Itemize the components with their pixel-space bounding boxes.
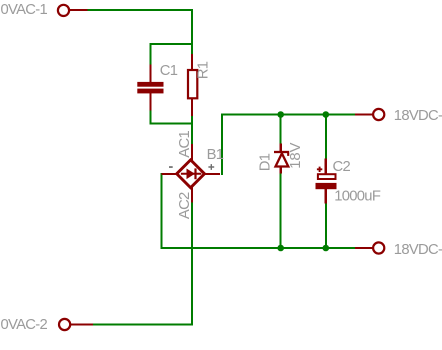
bridge diode anode line: [181, 173, 201, 175]
lead D1 bottom: [280, 167, 282, 174]
wire block top horizontal: [150, 43, 193, 45]
wire top rail: [221, 114, 355, 116]
wire bottom horizontal 0VAC-2: [93, 324, 193, 326]
svg-text:AC1: AC1: [177, 131, 193, 158]
lead C2 bottom: [325, 189, 327, 204]
capacitor C2 plate top outline: [318, 174, 336, 179]
svg-text:C1: C1: [160, 63, 178, 79]
lead C1 bottom: [149, 93, 151, 111]
svg-text:R1: R1: [196, 61, 212, 79]
pin circle 18VDC-1: [373, 109, 384, 120]
lead D1 top: [280, 144, 282, 152]
wire bridge minus down: [161, 173, 163, 249]
svg-text:18VDC-2: 18VDC-2: [394, 242, 442, 258]
bridge plus mark: [208, 164, 214, 170]
wire D1 upper: [280, 114, 282, 145]
capacitor C2 plus mark: [317, 167, 322, 172]
wire top horizontal: [87, 9, 193, 11]
junction bottom rail at C2: [323, 245, 330, 252]
svg-text:C2: C2: [333, 159, 351, 175]
bridge diode triangle: [187, 169, 195, 180]
svg-text:18V: 18V: [288, 142, 304, 168]
pin circle 18VDC-2: [373, 242, 384, 253]
junction bottom rail at D1: [277, 245, 284, 252]
wire bottom rail: [161, 247, 356, 249]
junction top rail at D1: [277, 111, 284, 118]
wire AC2 vertical: [191, 202, 193, 326]
bridge diode cathode bar: [194, 168, 196, 179]
lead bridge AC2: [191, 188, 193, 203]
svg-text:D1: D1: [258, 153, 274, 171]
pin lead 18VDC-2: [355, 247, 372, 249]
svg-text:18VDC-1: 18VDC-1: [394, 108, 442, 124]
pin circle 0VAC-1: [58, 5, 69, 16]
wire R1 bottom to bridge AC1: [191, 116, 193, 145]
zener D1 cathode bar: [274, 151, 289, 153]
lead bridge AC1: [191, 144, 193, 161]
wire block bottom horizontal: [150, 123, 193, 125]
svg-text:0VAC-2: 0VAC-2: [1, 317, 48, 333]
wire D1 lower: [280, 173, 282, 249]
pin lead 0VAC-2: [71, 323, 93, 325]
wire C2 lower: [325, 203, 327, 249]
component leads dark red: [70, 10, 373, 325]
lead bridge minus: [161, 173, 178, 175]
svg-text:1000uF: 1000uF: [334, 188, 381, 204]
pin lead 0VAC-1: [70, 9, 88, 11]
lead R1 top: [191, 54, 193, 70]
lead C2 top: [325, 159, 327, 174]
wire block left upper vertical: [150, 43, 152, 65]
wire C2 upper: [325, 114, 327, 160]
wire block left lower vertical: [150, 110, 152, 124]
wire bridge plus up: [221, 114, 223, 176]
lead C1 top: [149, 65, 151, 83]
capacitor C1 plate top: [137, 82, 163, 87]
lead R1 bottom: [191, 99, 193, 116]
capacitor C2 plate bottom: [316, 183, 337, 189]
svg-text:B1: B1: [207, 147, 224, 163]
bridge rectifier B1 diamond: [177, 160, 205, 188]
junction top rail at C2: [323, 111, 330, 118]
svg-text:AC2: AC2: [177, 192, 193, 219]
zener D1 wing: [287, 153, 289, 156]
svg-text:0VAC-1: 0VAC-1: [1, 2, 48, 18]
lead bridge plus: [205, 173, 220, 175]
zener D1 triangle: [276, 153, 289, 166]
pin circle 0VAC-2: [59, 319, 70, 330]
resistor R1 body: [188, 70, 197, 98]
bridge minus mark: [169, 166, 173, 168]
pin lead 18VDC-1: [355, 113, 372, 115]
wire net 0VAC-1: pin to R1/C1 top: [87, 9, 355, 326]
capacitor C1 plate bottom: [137, 89, 163, 94]
wire top right vertical down: [191, 9, 193, 55]
